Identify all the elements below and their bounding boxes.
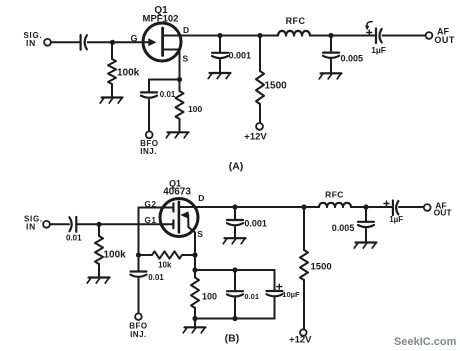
node [192,316,197,321]
value label 0.005 (B) [332,223,355,233]
pin label G1 [145,216,157,225]
pin label D (A) [183,25,189,35]
pin label S (A) [183,54,189,64]
value label 0.01 (A) [160,90,176,99]
capacitor 10uF (B) [267,270,283,319]
wire [51,41,80,43]
svg-text:1500: 1500 [265,81,288,92]
value label RFC (B) [325,189,344,199]
svg-text:OUT: OUT [434,35,455,45]
value label 10uF [282,290,300,299]
terminal AF OUT (A) [426,26,455,44]
Q1 gate-2 bar [172,204,174,212]
terminal +12V (B) [289,329,312,345]
ground [183,327,205,333]
value label MPF102 [143,14,179,25]
figure label (A) [229,160,244,172]
node gate junction (A) [110,40,115,45]
terminal BFO INJ (A) [140,131,158,156]
node drain bypass junction (B) [232,204,237,209]
node [232,267,237,272]
svg-text:0.005: 0.005 [341,53,364,63]
inductor RFC (A) [278,31,310,36]
svg-text:RFC: RFC [325,189,344,199]
pin label G [131,34,138,44]
value label 0.01 (B BFO) [148,273,164,282]
capacitor 0.01 BFO coupling (A) [141,92,157,131]
svg-text:100: 100 [188,104,202,114]
terminal AF OUT (B) [424,200,453,217]
svg-text:S: S [197,229,203,239]
svg-text:RFC: RFC [286,16,306,26]
value label 100k (A) [117,68,140,79]
capacitor C-in (A input coupling) [81,35,87,50]
resistor R 100 (B) [191,270,199,319]
capacitor 0.01 (B input coupling) [69,217,76,232]
svg-text:0.01: 0.01 [148,273,164,282]
ground [319,73,341,79]
svg-text:IN: IN [26,221,36,231]
wire [194,255,196,270]
value label 1uF (A) [371,45,386,55]
svg-text:0.001: 0.001 [244,219,267,229]
node RFC junction (A) [257,33,262,38]
value label 0.001 (B) [244,219,267,229]
svg-text:INJ.: INJ. [130,330,147,339]
wire [88,41,150,43]
wire [310,35,375,37]
value label RFC (A) [286,16,306,26]
Q1 channel bar (B) [178,202,181,233]
polarity mark + (B 1uF) [384,201,389,206]
wire G2 feed [139,208,173,256]
capacitor 1uF (B output) [393,201,399,216]
node G2 bias junction (B) [136,252,141,257]
svg-text:OUT: OUT [434,208,453,218]
ground [87,278,109,284]
capacitor 0.01 BFO coupling (B) [131,255,147,313]
transistor Q1 MPF102 (A) body [143,23,181,61]
value label 1uF (B) [389,215,403,224]
resistor R 100k (A) [108,44,116,98]
value label 10k [158,261,172,270]
capacitor 1uF (A output) [376,29,382,44]
wire bypass top rail [195,269,275,271]
value label 0.005 (A) [341,53,364,63]
svg-text:IN: IN [26,38,36,48]
svg-text:INJ.: INJ. [140,147,157,156]
wire drain rail (B) [235,206,319,208]
capacitor 0.005 (A) [323,36,339,74]
polarity mark + (10uF) [277,284,282,289]
svg-text:1µF: 1µF [371,45,386,55]
value label 0.001 (A) [229,51,252,61]
terminal BFO INJ (B) [129,313,147,338]
Q1 source path [188,215,195,256]
svg-text:0.01: 0.01 [160,90,176,99]
svg-text:MPF102: MPF102 [143,14,179,25]
label Q1 (B) [169,179,181,189]
svg-text:0.005: 0.005 [332,223,355,233]
Q1 gate-1 bar [172,220,174,228]
capacitor 0.001 (B) [227,207,243,238]
value label 100 (A) [188,104,202,114]
wire [220,35,278,37]
svg-text:100k: 100k [117,68,140,79]
node drain bypass junction (A) [217,33,222,38]
pin label S (B) [197,229,203,239]
value label 100 (B) [202,292,217,302]
ground [208,73,230,79]
value label 0.01 (B bypass) [244,292,259,301]
value label 1500 (B) [311,262,332,273]
Q1 substrate arrow [180,211,188,219]
Q1 drain lead / wire [163,35,220,37]
resistor R 10k (B) [139,251,196,258]
node [232,316,237,321]
polarity mark + (A) [367,30,372,35]
svg-text:1500: 1500 [311,262,332,273]
label Q1 (A) [154,5,168,16]
node source junction (B) [192,252,197,257]
polarity curl arrow (A) [365,22,372,31]
terminal SIG IN (B) [24,214,50,231]
Q1 drain lead / wire (B) [179,206,235,208]
resistor R 100 (A) [176,80,184,133]
value label 100k (B) [104,250,127,261]
pin label D (B) [198,193,204,203]
pin label G2 [145,200,157,209]
svg-text:(B): (B) [225,332,240,344]
Q1 gate arrow [148,38,156,46]
Q1 source lead [163,50,180,81]
svg-text:100: 100 [202,292,217,302]
svg-text:1µF: 1µF [389,215,403,224]
resistor R 1500 (A) [256,36,264,124]
ground [166,132,188,138]
node output bypass junction (A) [328,33,333,38]
svg-text:SeekIC.com: SeekIC.com [394,336,457,348]
svg-text:0.001: 0.001 [229,51,252,61]
capacitor 0.01 bypass (B) [227,270,243,319]
Q1 channel bar [161,28,164,56]
value label 1500 (A) [265,81,288,92]
wire [399,206,424,208]
ground [223,238,245,244]
node supply junction (B) [301,204,306,209]
wire [382,35,425,37]
terminal +12V (A) [244,123,267,143]
svg-text:S: S [183,54,189,64]
terminal SIG IN (A) [24,31,51,48]
wire [351,206,392,208]
svg-text:G1: G1 [145,216,157,225]
figure label (B) [225,332,240,344]
svg-text:40673: 40673 [163,187,191,198]
svg-text:D: D [198,193,204,203]
svg-text:(A): (A) [229,160,244,172]
node source bypass junction (B) [192,267,197,272]
value label 40673 [163,187,191,198]
svg-text:0.01: 0.01 [66,234,82,243]
wire [77,223,173,225]
node gate-1 junction (B) [96,222,101,227]
capacitor 0.001 (A) [212,36,228,74]
wire [50,223,69,225]
node output bypass junction (B) [363,204,368,209]
svg-text:+12V: +12V [244,132,267,143]
ground [354,243,376,249]
watermark SeekIC.com [394,336,457,348]
wire [149,80,180,93]
node source junction (A) [177,77,182,82]
svg-text:10µF: 10µF [282,290,300,299]
svg-text:G: G [131,34,138,44]
svg-text:100k: 100k [104,250,127,261]
value label 0.01 (B input) [66,234,82,243]
resistor R 1500 (B) [300,207,308,329]
svg-text:10k: 10k [158,261,172,270]
capacitor 0.005 (B) [358,207,374,243]
resistor R 100k (B) [95,226,103,278]
ground [100,98,122,104]
wire [194,319,196,328]
wire bypass bottom rail [195,318,275,320]
svg-text:0.01: 0.01 [244,292,259,301]
inductor RFC (B) [319,203,351,207]
svg-text:+12V: +12V [289,334,312,345]
svg-text:D: D [183,25,189,35]
transistor Q1 40673 (B) body [160,199,198,237]
